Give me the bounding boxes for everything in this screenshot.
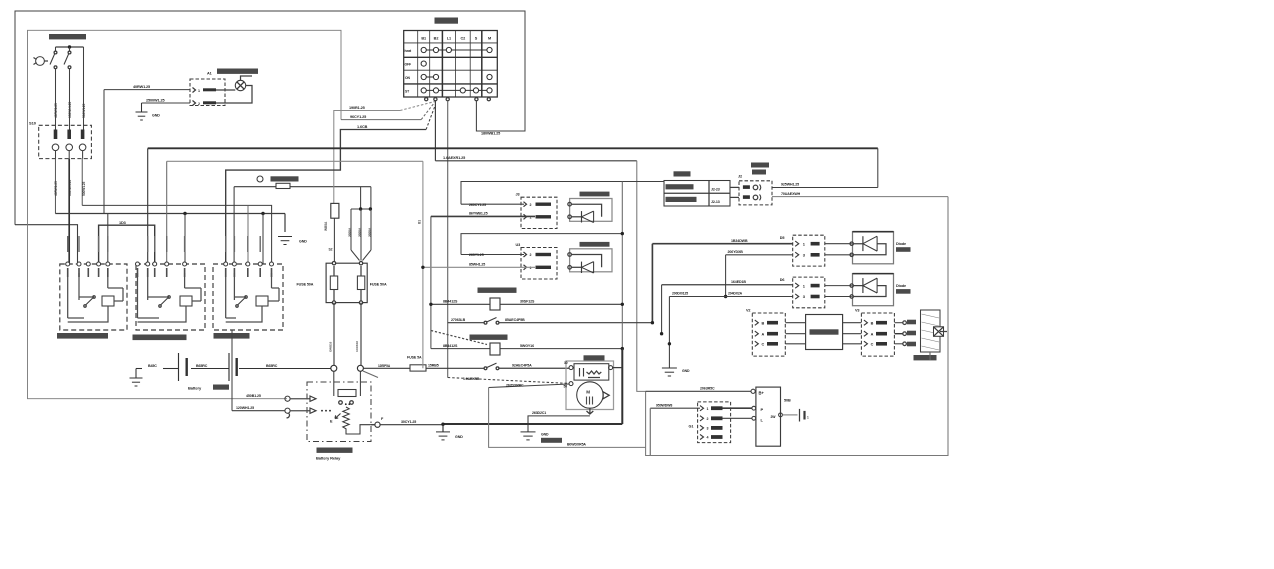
svg-text:J2-13: J2-13 <box>711 200 720 204</box>
svg-text:30CY1.25: 30CY1.25 <box>401 420 416 424</box>
start relay 1 coil <box>490 343 500 355</box>
wire: preheat branch down to safety box pin2 <box>233 187 235 264</box>
svg-text:5WGY16: 5WGY16 <box>520 344 534 348</box>
wire 85WH1.25 into U3 pin1 (gray) <box>423 266 535 268</box>
svg-text:B: B <box>871 321 874 325</box>
svg-text:2: 2 <box>707 417 709 421</box>
wire 190R1.25 from B1 (gray) to main fuse <box>334 111 400 204</box>
wire loop: ignition S terminal 180WB1.25 routed around top border <box>15 11 525 225</box>
starter motor enclosure <box>566 361 614 410</box>
wire 2063R5C to generator B+ <box>646 390 751 392</box>
svg-text:8B4412S: 8B4412S <box>443 344 458 348</box>
connector J2 dashed box <box>739 181 772 205</box>
connector G1 dashed box <box>698 402 731 443</box>
svg-text:L1: L1 <box>447 36 451 40</box>
wire 103 linking box1 pin4 and box2 pin3 <box>99 225 155 264</box>
wire: rail drop to heater relay box pin5 <box>184 214 186 265</box>
supply rail x622.3 from diode loop to starter <box>621 182 623 349</box>
wire 120WH1.25 into coil terminal 2 from safety relay <box>232 410 285 412</box>
generator terminal box B+ P L <box>756 387 781 446</box>
svg-text:J2: J2 <box>738 175 742 179</box>
svg-text:30B5A: 30B5A <box>357 227 361 237</box>
interlock dashed relay1 <box>431 331 487 345</box>
fuse element left <box>330 276 337 290</box>
svg-text:40RW1.25: 40RW1.25 <box>54 103 58 118</box>
label 名称 header <box>674 171 691 176</box>
preheat switch contact blades <box>55 47 57 51</box>
thick starter cable down x622.3 <box>621 349 623 424</box>
svg-text:92AEC4P5A: 92AEC4P5A <box>512 363 532 367</box>
wires V3 to alarm terminals <box>894 322 902 324</box>
fusible link above main fuse <box>331 203 339 218</box>
svg-text:GND: GND <box>299 240 307 244</box>
thick ground cable y424 <box>443 423 622 425</box>
battery relay dashed box <box>307 382 371 442</box>
relay1 contact on starter feed <box>484 367 487 370</box>
wire 70UAEXWH from J2 to right border <box>772 196 948 198</box>
J3 diode symbol <box>581 211 583 222</box>
main fuse box FUSE 50A x2 <box>326 263 367 302</box>
wire: preheat feed across to fuse stack <box>234 186 371 188</box>
svg-text:C: C <box>871 343 874 347</box>
svg-text:190R1.25: 190R1.25 <box>349 106 365 110</box>
svg-text:heat: heat <box>405 49 413 53</box>
wire 8B4412S into relay1 coil <box>431 348 490 350</box>
fuse element right <box>357 276 364 290</box>
svg-text:FUSE 50A: FUSE 50A <box>370 283 387 287</box>
svg-text:2500W1.25: 2500W1.25 <box>146 98 165 102</box>
wire 85AEC4P5B from relay2 contact <box>499 322 653 324</box>
wire B0WDXR5A to generator box <box>489 388 646 448</box>
D6 diode symbol <box>825 285 852 287</box>
battery relay terminal F <box>375 422 380 427</box>
wire: start signal drop to engine box <box>637 161 646 392</box>
svg-text:27063LB: 27063LB <box>451 318 466 322</box>
D5 diode symbol <box>825 243 852 245</box>
indicator lamp of preheat switch <box>36 57 45 66</box>
indicator lamp symbol in A1 circuit <box>235 80 245 90</box>
wire link D5 to D6 row <box>725 255 727 297</box>
svg-text:1D3: 1D3 <box>119 221 126 225</box>
svg-text:1.6CB: 1.6CB <box>357 125 368 129</box>
svg-text:Diode: Diode <box>896 284 906 288</box>
wire 96CY1.25 from B2 to inner border <box>341 119 421 121</box>
start relay 1 label 启动继电器1 <box>470 335 508 340</box>
svg-text:Diode: Diode <box>896 242 906 246</box>
svg-text:2: 2 <box>530 203 532 207</box>
svg-text:P: P <box>761 407 764 412</box>
ground GND of A1 circuit <box>141 103 143 112</box>
wire: triple feed 30B5A into right fuse <box>351 187 371 209</box>
J3 diode box 二极管 <box>570 199 612 222</box>
table terminal pins below <box>425 98 428 101</box>
relay2 contact row: wire 27063LB <box>448 322 484 324</box>
node: preheat switch common junction <box>56 46 84 48</box>
svg-text:M: M <box>586 390 590 395</box>
svg-text:B2: B2 <box>434 36 439 40</box>
svg-text:B0WDXR5A: B0WDXR5A <box>567 443 586 447</box>
svg-text:30B5A: 30B5A <box>367 227 371 237</box>
svg-text:2: 2 <box>530 253 532 257</box>
svg-text:C2: C2 <box>460 36 465 40</box>
wire 30SF12S from relay2 coil to rail <box>500 303 622 305</box>
svg-text:40RW1.25: 40RW1.25 <box>54 181 58 196</box>
wire: L1 terminal long drop <box>447 101 449 378</box>
wire 40RW1.25 into A1 pin1 <box>104 89 190 91</box>
svg-text:30B5A: 30B5A <box>347 227 351 237</box>
ground GND at right end of rail <box>284 214 286 233</box>
wire drop to ground right section <box>668 297 670 369</box>
preheat switch title 发动机预热转换开关 <box>49 34 86 39</box>
ground of battery <box>136 368 142 370</box>
svg-text:B1: B1 <box>418 220 422 224</box>
wire: name table to J2 <box>730 186 739 188</box>
wire 950WDW8 into G1 pin1 <box>650 407 700 409</box>
svg-text:85AEC4P5B: 85AEC4P5B <box>505 318 525 322</box>
wire 86YWB1.25 into J3 pin1 (thick) <box>431 215 535 217</box>
wire: switch to connector S10 pole3 500W1.25 <box>83 47 85 130</box>
svg-text:B45C: B45C <box>148 364 157 368</box>
svg-text:40RW1.25: 40RW1.25 <box>133 85 150 89</box>
preheat relay fuse element <box>276 183 290 188</box>
right border wire down to generator box <box>646 197 948 456</box>
wire: B2 terminal down (start signal) <box>434 101 436 161</box>
label 发动机控制器继电器(J1) <box>57 333 108 339</box>
svg-text:450B1.25: 450B1.25 <box>246 394 261 398</box>
svg-text:12EIP5A: 12EIP5A <box>378 364 391 368</box>
U3 diode box 二极管 <box>570 249 612 272</box>
wire: solenoid C to main cable <box>613 367 623 369</box>
svg-text:1: 1 <box>198 89 200 93</box>
wire code labels above box pins <box>67 236 68 252</box>
long feed line y148 across sheet <box>148 147 878 149</box>
solenoid terminal C <box>609 366 613 370</box>
svg-text:204DX2A: 204DX2A <box>728 292 743 296</box>
connector U3 dashed box <box>521 248 557 280</box>
svg-text:263Y1.25: 263Y1.25 <box>469 253 484 257</box>
svg-text:96CY1.25: 96CY1.25 <box>350 115 366 119</box>
svg-text:70UAEXWH: 70UAEXWH <box>781 192 801 196</box>
svg-text:1.6AEXR1.25: 1.6AEXR1.25 <box>443 156 465 160</box>
wire 206YDXB return from D5 <box>726 254 793 256</box>
svg-text:262DXRBC: 262DXRBC <box>506 383 524 387</box>
svg-text:950WDW8: 950WDW8 <box>656 404 672 408</box>
svg-text:U3: U3 <box>516 243 521 247</box>
solenoid terminal 50 <box>569 382 573 386</box>
wire: x15 border drop to controller box J1 pin2 <box>15 225 78 264</box>
svg-text:206YDXB: 206YDXB <box>728 250 744 254</box>
wire 30CY1.25 from battery relay F <box>380 424 443 426</box>
battery relay coil input terminals <box>285 396 290 401</box>
svg-text:GND: GND <box>455 435 463 439</box>
connector D5 dashed box <box>793 235 825 266</box>
svg-text:B1: B1 <box>421 36 426 40</box>
wire: A1 feed drop to rail <box>103 90 105 214</box>
wires G1 to P and L <box>723 407 752 409</box>
wire 1.6AEXR1.25 start signal to engine <box>435 160 636 162</box>
solenoid terminal 30 <box>569 366 573 370</box>
wire 263D2C1 motor ground to GND <box>528 416 590 432</box>
svg-text:200DX/125: 200DX/125 <box>672 292 688 296</box>
svg-text:B: B <box>762 321 765 325</box>
svg-text:ON: ON <box>405 76 411 80</box>
wire 2500W1.25 into A1 pin2 from ground <box>142 102 191 104</box>
wire 5WGY16 from relay1 coil to junction <box>500 348 622 350</box>
svg-text:FUSE 5A: FUSE 5A <box>407 356 422 360</box>
svg-text:B65RC: B65RC <box>196 364 208 368</box>
svg-text:1B34DWB: 1B34DWB <box>731 239 748 243</box>
wire 164ED1B to lamp connector D6 <box>661 285 663 334</box>
svg-text:D6: D6 <box>780 278 785 282</box>
wire 8B4412S into relay2 coil <box>431 303 490 305</box>
battery relay terminal to fuse 5A <box>357 365 363 371</box>
svg-text:1: 1 <box>530 266 532 270</box>
svg-text:D5: D5 <box>780 236 785 240</box>
motor output arrow <box>603 392 609 399</box>
label 蓄电池继电器 Battery Relay <box>317 448 353 453</box>
label 加热器继电器 <box>133 335 187 341</box>
wire 262DXRBC to solenoid 50 <box>489 384 569 388</box>
ignition switch contact table frame <box>404 31 498 98</box>
svg-text:B+: B+ <box>759 390 765 395</box>
ST row contacts <box>424 89 490 91</box>
svg-text:V2: V2 <box>746 309 750 313</box>
wires converter to V3 <box>843 322 862 324</box>
junction dots on coil rail and rail x622 <box>429 303 432 306</box>
wire B65RC battery positive to relay terminal B <box>239 368 331 370</box>
svg-text:J3: J3 <box>516 193 520 197</box>
wire: gray rail drop to box2 pin4 <box>166 161 168 264</box>
wire: S10 pole2 down to controller box J1 pin1 (thick) <box>68 159 70 264</box>
relay box: safety relay <box>213 264 283 330</box>
wire 15RB5 to starter relay contact <box>426 367 484 369</box>
svg-text:30: 30 <box>564 361 568 365</box>
svg-text:A: A <box>762 332 765 336</box>
gray accessory rail y161.3 <box>167 160 423 162</box>
name table 发动机控制器/监控器显示器 <box>664 181 730 207</box>
svg-text:263D2C1: 263D2C1 <box>532 411 546 415</box>
wire: fuse left down to battery relay B terminal <box>333 303 335 366</box>
wire: long line left corner drop to box2 pin2 <box>147 148 149 264</box>
coil feed rail from J3 wire down <box>430 216 432 348</box>
svg-text:OFF: OFF <box>405 63 412 67</box>
wire: rail drop to safety relay box pin4 <box>262 214 264 265</box>
D6 diode box <box>853 274 894 306</box>
svg-text:A: A <box>871 332 874 336</box>
starter solenoid box <box>574 364 609 380</box>
svg-text:15RB5: 15RB5 <box>428 363 439 367</box>
A1 pin1 with bar <box>193 88 196 93</box>
svg-text:1CRK16: 1CRK16 <box>355 341 359 352</box>
connector J3 dashed box <box>521 197 557 228</box>
OFF row contact <box>421 61 426 66</box>
wire: S10 pole3 down to rail y205 <box>81 159 83 206</box>
motor ground lead <box>587 408 594 414</box>
wire: switch to connector S10 pole1 40RW1.25 <box>55 69 57 130</box>
svg-text:J2-23: J2-23 <box>711 188 720 192</box>
ignition switch title 点火开关 <box>435 18 459 24</box>
svg-text:260CY1.25: 260CY1.25 <box>469 203 486 207</box>
relay box J1: engine controller relay <box>60 264 127 330</box>
battery relay coil <box>343 407 349 430</box>
svg-text:1.6AEXRB: 1.6AEXRB <box>463 377 480 381</box>
wire: box1 pin5 up to rail <box>107 214 109 265</box>
ground GND right section <box>662 367 677 369</box>
svg-text:120WH1.25: 120WH1.25 <box>236 406 254 410</box>
terminal color labels 黑 红 白 <box>907 320 916 325</box>
battery relay internal plunger <box>333 371 335 396</box>
wire 92AEC4P5A to starter solenoid 30 <box>499 367 569 369</box>
wire 1.6CB from B2 to safety box pin1 <box>226 130 426 265</box>
svg-text:50: 50 <box>564 385 568 389</box>
svg-text:8B4412S: 8B4412S <box>443 300 458 304</box>
smoke alarm unit <box>921 310 941 352</box>
wires V2 to converter <box>785 322 805 324</box>
ON row contacts <box>424 76 436 78</box>
ground GND on cable <box>442 424 444 432</box>
connector V2 dashed box <box>752 313 785 356</box>
wire: switch to connector S10 pole2 150WL1.25 <box>69 69 71 130</box>
wires from coil terminals into relay box <box>290 398 310 400</box>
connector S10 <box>39 125 92 158</box>
label 启动马达 <box>584 355 605 360</box>
U3 diode symbol <box>581 262 583 273</box>
wire 263Y1.25 into U3 pin2 (loop from rail) <box>461 254 524 256</box>
svg-text:OWB16: OWB16 <box>329 341 333 352</box>
wire: inner gray loop 27.5 left border <box>28 30 342 398</box>
svg-text:C: C <box>762 343 765 347</box>
wire 260CY1.25 into J3 pin2 (loop from rail) <box>461 203 524 205</box>
svg-text:A1: A1 <box>207 72 212 76</box>
wire: fusible link to fuse box <box>333 218 335 263</box>
svg-text:4: 4 <box>707 436 709 440</box>
relay box: heater relay <box>136 264 205 330</box>
starter motor M <box>577 382 603 408</box>
svg-text:2063R5C: 2063R5C <box>700 387 715 391</box>
svg-text:S10: S10 <box>29 121 37 126</box>
D5 diode box <box>853 232 894 264</box>
J3 diode internal loop <box>571 204 601 217</box>
svg-text:500W1.25: 500W1.25 <box>82 104 86 118</box>
svg-text:GND: GND <box>541 432 549 436</box>
rail y205.4 to safety relay box <box>82 205 271 264</box>
wire 200DX2 and 204DX2A on D6 pin2 row <box>669 296 792 298</box>
svg-text:B65RC: B65RC <box>266 364 278 368</box>
svg-text:180WB1.25: 180WB1.25 <box>481 131 500 135</box>
wire: S10 pole1 down to horizontal rail <box>54 159 56 214</box>
svg-text:30SF12S: 30SF12S <box>520 300 535 304</box>
svg-text:G1: G1 <box>689 425 694 429</box>
svg-text:M: M <box>488 36 491 40</box>
svg-text:150WL1.25: 150WL1.25 <box>68 102 72 118</box>
svg-text:3: 3 <box>707 427 709 431</box>
ground GND 启动马达 <box>521 431 536 433</box>
table column lines <box>417 31 419 98</box>
svg-text:1: 1 <box>707 407 709 411</box>
label 报警器 <box>914 355 937 360</box>
wire: fuse right down to battery relay terminal <box>360 303 362 366</box>
svg-text:FUSE 50A: FUSE 50A <box>297 283 314 287</box>
power relay 2 coil <box>490 298 500 310</box>
svg-text:50B: 50B <box>784 399 791 403</box>
connector V3 dashed box <box>861 313 894 356</box>
svg-text:925WH1.25: 925WH1.25 <box>781 183 799 187</box>
wire 1B34DWB to lamp connector D5 <box>651 244 653 323</box>
svg-text:2: 2 <box>198 102 200 106</box>
power relay 2 label 电源继电器2 <box>478 288 517 293</box>
A1 pin2 with bar <box>193 101 196 106</box>
svg-text:WB5A: WB5A <box>324 221 328 231</box>
svg-text:86YWB1.25: 86YWB1.25 <box>469 212 488 216</box>
table row lines <box>404 42 498 44</box>
U3 diode internal loop <box>571 255 601 268</box>
svg-text:164ED1B: 164ED1B <box>731 280 746 284</box>
gray rail drop x422.9 with label B1 <box>422 161 424 368</box>
preheat relay 预热继电器 symbol <box>257 176 263 182</box>
svg-text:GND: GND <box>152 114 160 118</box>
svg-text:Battery: Battery <box>188 386 202 391</box>
voltage converter box 电压转换器 <box>806 315 843 350</box>
battery relay terminal B <box>331 365 337 371</box>
svg-text:GND: GND <box>682 369 690 373</box>
svg-text:85WH1.25: 85WH1.25 <box>469 262 485 266</box>
wire: S terminal drop to 180WB1.25 corner <box>476 101 478 131</box>
svg-text:V3: V3 <box>855 309 859 313</box>
ground rail y213.5 across relay boxes <box>55 213 285 215</box>
connector A1 dashed box <box>190 79 225 106</box>
heat row contacts <box>424 49 490 51</box>
connector D6 dashed box <box>793 277 825 308</box>
label 安全继电器 <box>214 333 250 339</box>
wire 925WH1.25 from J2 to long line <box>772 187 878 189</box>
dashed start wire 1.6AEXRB to solenoid 50 <box>448 378 569 384</box>
svg-text:Battery Relay: Battery Relay <box>316 456 341 461</box>
wire: A1 lamp loop <box>216 86 252 104</box>
solenoid internals <box>579 368 581 377</box>
svg-text:S2: S2 <box>329 248 333 252</box>
